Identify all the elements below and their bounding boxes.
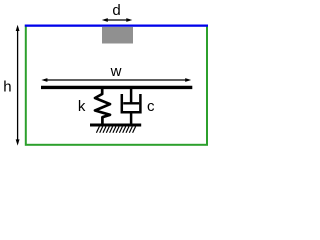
svg-text:d: d [112,2,120,19]
svg-text:k: k [78,98,86,115]
svg-text:w: w [110,63,122,80]
svg-text:h: h [3,79,11,96]
svg-text:c: c [147,98,155,115]
